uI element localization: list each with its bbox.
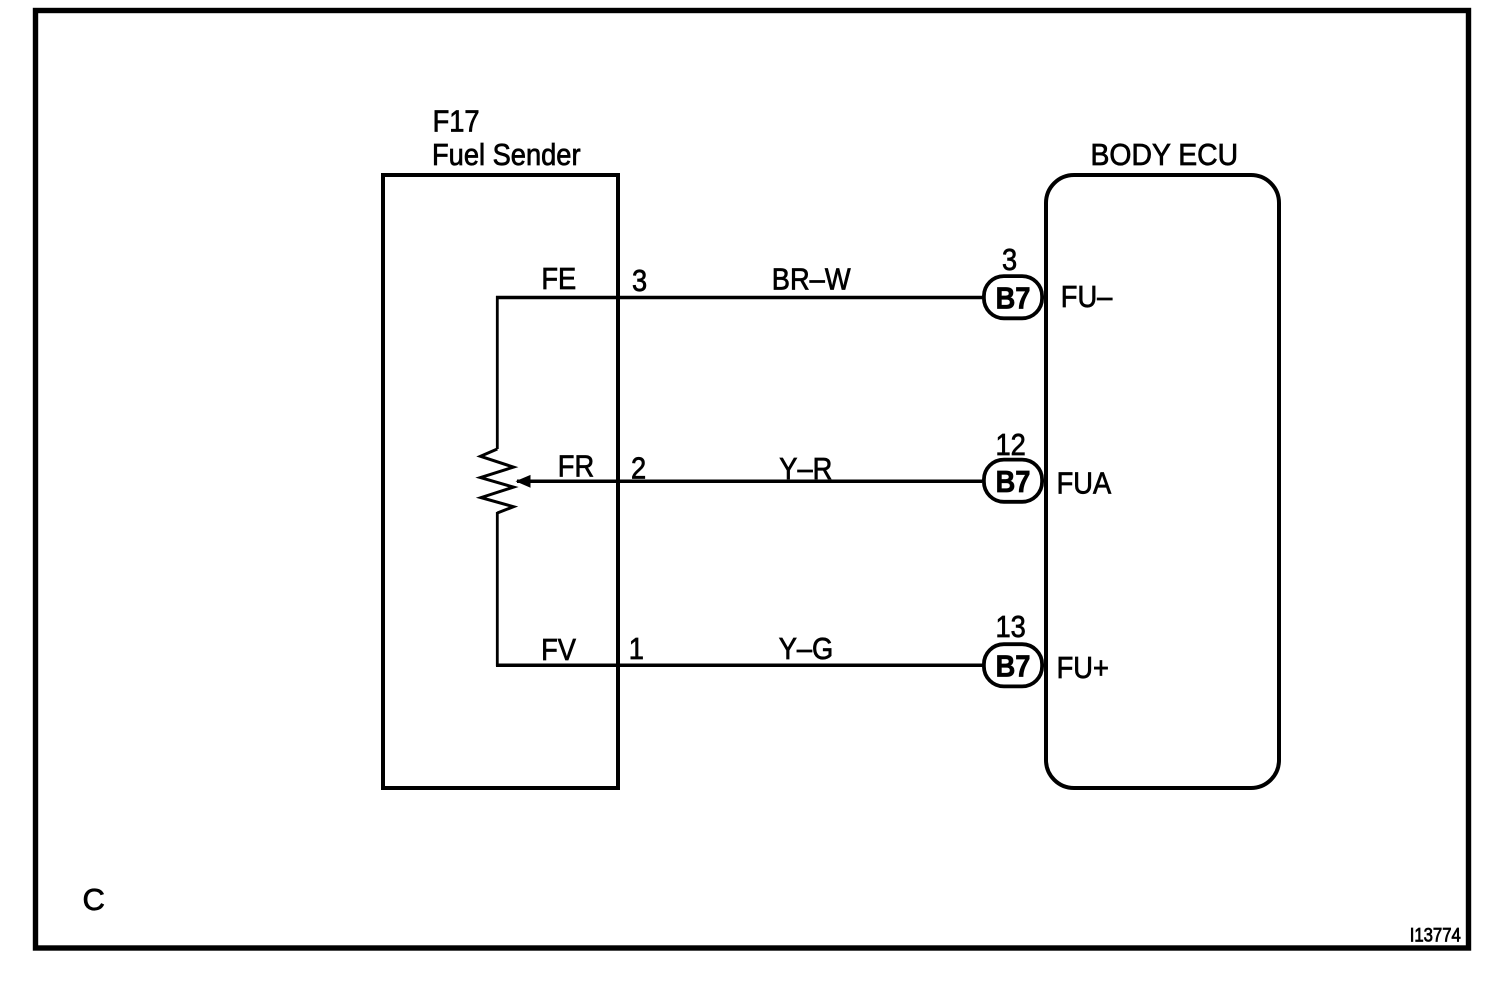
svg-text:F17: F17	[433, 105, 480, 139]
svg-text:Y–G: Y–G	[779, 633, 834, 667]
svg-text:B7: B7	[996, 282, 1031, 316]
svg-text:FV: FV	[541, 633, 576, 667]
svg-text:FR: FR	[558, 450, 594, 484]
svg-text:FE: FE	[541, 263, 576, 297]
svg-text:13: 13	[996, 610, 1026, 644]
svg-text:I13774: I13774	[1410, 925, 1461, 946]
svg-text:BODY ECU: BODY ECU	[1091, 138, 1239, 172]
svg-text:2: 2	[631, 452, 646, 486]
svg-text:3: 3	[1002, 244, 1017, 278]
svg-text:3: 3	[632, 264, 647, 298]
svg-text:Y–R: Y–R	[779, 452, 832, 486]
svg-text:1: 1	[629, 632, 644, 666]
svg-text:FU–: FU–	[1061, 280, 1113, 314]
svg-text:FU+: FU+	[1057, 651, 1109, 685]
svg-text:Fuel Sender: Fuel Sender	[432, 139, 581, 173]
svg-text:C: C	[83, 882, 105, 917]
svg-text:BR–W: BR–W	[772, 263, 851, 297]
svg-text:12: 12	[996, 429, 1026, 463]
svg-text:B7: B7	[996, 650, 1031, 684]
svg-text:B7: B7	[996, 465, 1031, 499]
svg-text:FUA: FUA	[1057, 467, 1112, 501]
